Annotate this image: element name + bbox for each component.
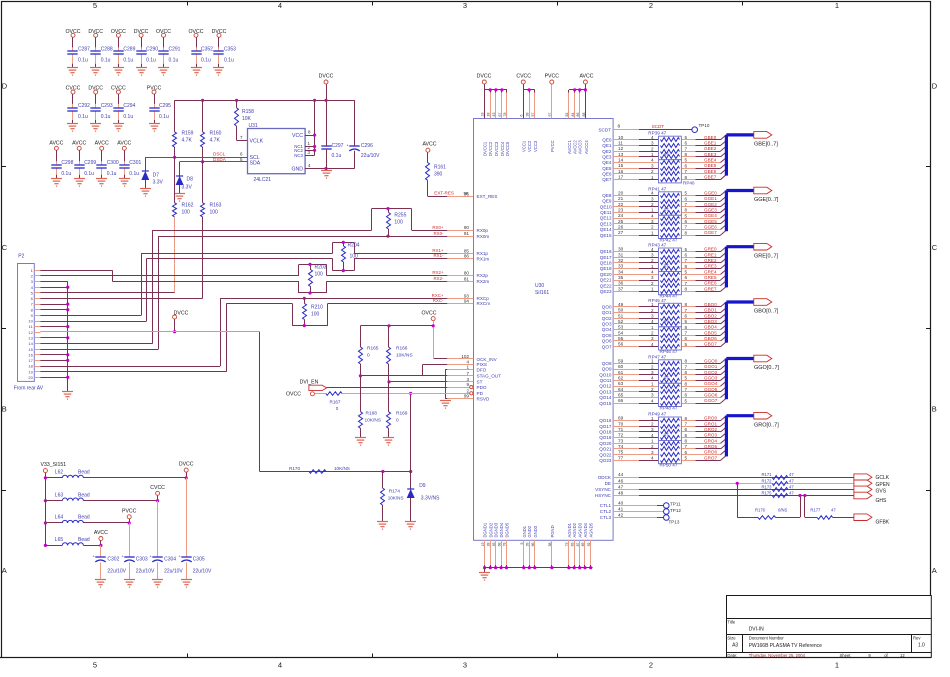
svg-text:8: 8 [685, 439, 688, 444]
svg-text:8: 8 [685, 230, 688, 235]
svg-text:OVCC: OVCC [156, 29, 171, 35]
svg-text:QE4: QE4 [602, 160, 612, 165]
svg-text:L62: L62 [55, 470, 64, 476]
svg-text:ODCK: ODCK [598, 475, 612, 480]
svg-text:GBO4: GBO4 [704, 325, 717, 330]
svg-text:RP50 47: RP50 47 [660, 463, 678, 468]
svg-text:6: 6 [685, 275, 688, 280]
svg-text:C287: C287 [78, 46, 90, 52]
svg-text:2: 2 [651, 444, 654, 449]
svg-text:RX2p: RX2p [477, 273, 489, 278]
svg-text:57: 57 [531, 113, 535, 117]
svg-text:22: 22 [618, 202, 624, 207]
svg-text:GFBK: GFBK [876, 519, 890, 525]
svg-text:4: 4 [651, 319, 654, 324]
svg-text:QE6: QE6 [602, 172, 612, 177]
svg-text:7: 7 [685, 202, 688, 207]
svg-text:0.1u: 0.1u [159, 114, 169, 120]
svg-text:R173: R173 [761, 484, 772, 489]
svg-text:54: 54 [618, 330, 624, 335]
svg-text:2: 2 [651, 364, 654, 369]
svg-text:NC3: NC3 [294, 153, 303, 158]
svg-text:R169: R169 [396, 411, 408, 417]
svg-text:22u/10V: 22u/10V [193, 569, 212, 575]
svg-text:6: 6 [685, 141, 688, 146]
svg-text:C352: C352 [201, 46, 213, 52]
svg-text:GND2: GND2 [527, 525, 532, 537]
svg-text:45: 45 [492, 542, 496, 546]
svg-text:10K/NS: 10K/NS [388, 496, 404, 501]
svg-text:QO15: QO15 [599, 401, 612, 406]
svg-text:AGND1: AGND1 [567, 522, 572, 537]
svg-text:Rev: Rev [913, 636, 921, 641]
svg-text:GGE3: GGE3 [704, 207, 717, 212]
svg-text:From rear AV: From rear AV [14, 386, 44, 392]
svg-text:DVCC5: DVCC5 [505, 141, 510, 156]
svg-text:QO2: QO2 [602, 316, 612, 321]
svg-text:2: 2 [651, 387, 654, 392]
svg-text:1: 1 [651, 359, 654, 364]
svg-text:4: 4 [651, 135, 654, 140]
svg-text:RX0-: RX0- [433, 231, 444, 236]
svg-text:L64: L64 [55, 515, 64, 521]
svg-text:GGO4: GGO4 [704, 381, 718, 386]
svg-text:A: A [932, 566, 937, 575]
svg-text:26: 26 [618, 225, 624, 230]
svg-text:5: 5 [93, 1, 97, 10]
svg-text:R170: R170 [289, 466, 300, 471]
svg-text:10K/NS: 10K/NS [396, 353, 413, 359]
svg-text:27: 27 [618, 230, 624, 235]
svg-text:15: 15 [28, 347, 33, 352]
svg-text:GBE1: GBE1 [704, 141, 717, 146]
svg-text:D: D [932, 82, 938, 91]
svg-text:3: 3 [651, 393, 654, 398]
svg-text:RX2+: RX2+ [432, 270, 444, 275]
svg-text:GRO6: GRO6 [704, 450, 717, 455]
svg-text:VCLK: VCLK [250, 139, 264, 145]
svg-text:RP41 47: RP41 47 [648, 186, 666, 191]
svg-text:RP46 47: RP46 47 [660, 349, 678, 354]
svg-text:7: 7 [685, 387, 688, 392]
svg-text:5: 5 [685, 191, 688, 196]
svg-text:GGE1: GGE1 [704, 196, 717, 201]
svg-text:DSCL: DSCL [213, 152, 226, 157]
svg-text:DVI-IN: DVI-IN [749, 627, 764, 633]
svg-text:47: 47 [663, 263, 669, 268]
svg-text:QE12: QE12 [600, 216, 612, 221]
svg-text:8: 8 [685, 287, 688, 292]
svg-text:14: 14 [28, 341, 33, 346]
svg-text:AVCC: AVCC [49, 141, 63, 147]
svg-text:62: 62 [618, 375, 624, 380]
svg-text:3: 3 [651, 141, 654, 146]
svg-text:78: 78 [503, 542, 507, 546]
svg-text:6: 6 [685, 163, 688, 168]
svg-text:C305: C305 [193, 557, 205, 563]
svg-text:64: 64 [618, 387, 624, 392]
svg-text:DVCC: DVCC [179, 462, 194, 468]
svg-text:42: 42 [618, 513, 624, 518]
svg-text:0.1u: 0.1u [101, 57, 111, 63]
svg-text:23: 23 [618, 207, 624, 212]
svg-text:73: 73 [618, 438, 624, 443]
svg-text:CVCC: CVCC [150, 485, 165, 491]
svg-text:3: 3 [651, 219, 654, 224]
svg-text:C294: C294 [123, 103, 135, 109]
svg-text:7: 7 [685, 146, 688, 151]
svg-text:83: 83 [570, 542, 574, 546]
svg-text:1: 1 [651, 264, 654, 269]
svg-text:70: 70 [618, 421, 624, 426]
svg-text:Date:: Date: [727, 653, 737, 658]
svg-text:14: 14 [618, 158, 624, 163]
svg-text:1: 1 [651, 287, 654, 292]
svg-text:GRE1: GRE1 [704, 252, 717, 257]
svg-text:Sheet: Sheet [840, 653, 852, 658]
svg-text:0.1u: 0.1u [61, 171, 71, 177]
svg-text:C297: C297 [332, 143, 344, 149]
svg-text:QO10: QO10 [599, 372, 612, 377]
svg-text:EXT_RES: EXT_RES [477, 194, 498, 199]
svg-text:8: 8 [685, 302, 688, 307]
svg-text:52: 52 [618, 319, 624, 324]
svg-text:5: 5 [685, 398, 688, 403]
svg-text:2: 2 [651, 225, 654, 230]
svg-text:PDO: PDO [477, 385, 487, 390]
svg-text:56: 56 [618, 342, 624, 347]
svg-text:0.1u: 0.1u [129, 171, 139, 177]
svg-text:CTL3: CTL3 [600, 515, 612, 520]
svg-text:DVCC: DVCC [134, 29, 149, 35]
svg-text:6: 6 [685, 196, 688, 201]
svg-text:24: 24 [618, 213, 624, 218]
svg-text:102: 102 [461, 354, 469, 359]
svg-text:GGO1: GGO1 [704, 364, 718, 369]
svg-text:A3: A3 [732, 643, 738, 649]
svg-text:SDA: SDA [250, 161, 261, 167]
svg-text:TP12: TP12 [670, 508, 681, 513]
svg-text:GBO1: GBO1 [704, 308, 717, 313]
svg-text:GBE0: GBE0 [704, 135, 717, 140]
svg-text:38: 38 [525, 113, 529, 117]
svg-text:OVCC: OVCC [66, 29, 81, 35]
svg-text:4: 4 [651, 456, 654, 461]
svg-text:OVCC: OVCC [286, 392, 301, 398]
svg-text:3.3V: 3.3V [182, 185, 193, 191]
svg-text:QE10: QE10 [600, 204, 612, 209]
svg-text:GBO5: GBO5 [704, 330, 717, 335]
svg-text:GRO2: GRO2 [704, 427, 717, 432]
svg-text:47: 47 [663, 207, 669, 212]
svg-text:VCC1: VCC1 [521, 140, 526, 152]
svg-text:66: 66 [618, 398, 624, 403]
svg-text:QE5: QE5 [602, 166, 612, 171]
svg-text:PVCC: PVCC [122, 508, 137, 514]
svg-text:92: 92 [587, 542, 591, 546]
svg-text:VCC: VCC [292, 133, 303, 139]
svg-text:10: 10 [618, 135, 624, 140]
svg-text:GRE0: GRE0 [704, 247, 717, 252]
svg-text:3: 3 [651, 275, 654, 280]
svg-text:84: 84 [571, 113, 575, 117]
svg-text:1: 1 [651, 208, 654, 213]
svg-text:D9: D9 [419, 483, 426, 489]
svg-text:QO5: QO5 [602, 333, 612, 338]
svg-text:DVCC: DVCC [212, 29, 227, 35]
svg-text:P2: P2 [18, 253, 24, 259]
svg-text:AVCC: AVCC [72, 141, 86, 147]
svg-text:1: 1 [835, 661, 839, 670]
svg-text:65: 65 [618, 393, 624, 398]
svg-text:B: B [932, 405, 937, 414]
svg-text:R159: R159 [182, 131, 194, 137]
svg-text:C301: C301 [129, 160, 141, 166]
svg-text:C303: C303 [136, 557, 148, 563]
svg-text:4: 4 [278, 1, 282, 10]
svg-text:13: 13 [28, 336, 33, 341]
svg-text:50: 50 [618, 308, 624, 313]
svg-text:2: 2 [651, 331, 654, 336]
svg-text:1: 1 [651, 416, 654, 421]
svg-text:18: 18 [481, 113, 485, 117]
svg-text:RX2-: RX2- [433, 276, 444, 281]
svg-text:91: 91 [464, 231, 470, 236]
svg-text:12: 12 [900, 653, 905, 658]
svg-text:2: 2 [651, 169, 654, 174]
svg-text:C289: C289 [123, 46, 135, 52]
svg-text:8: 8 [685, 152, 688, 157]
svg-text:TP11: TP11 [670, 502, 681, 507]
svg-text:35: 35 [618, 275, 624, 280]
svg-text:6: 6 [685, 219, 688, 224]
svg-text:5: 5 [685, 342, 688, 347]
svg-text:96: 96 [464, 191, 470, 196]
svg-text:2: 2 [651, 308, 654, 313]
svg-text:20: 20 [618, 190, 624, 195]
svg-text:PD: PD [477, 391, 484, 396]
svg-text:17: 17 [618, 175, 624, 180]
svg-text:QO14: QO14 [599, 395, 612, 400]
svg-text:28: 28 [486, 113, 490, 117]
svg-text:3: 3 [651, 314, 654, 319]
svg-text:QO8: QO8 [602, 361, 612, 366]
svg-text:R171: R171 [761, 472, 772, 477]
svg-text:Bead: Bead [78, 537, 90, 543]
svg-text:DGND2: DGND2 [488, 522, 493, 537]
svg-text:3.3V: 3.3V [153, 180, 164, 186]
svg-text:R210: R210 [311, 305, 323, 311]
svg-text:48: 48 [618, 491, 624, 496]
svg-text:R167: R167 [330, 400, 341, 405]
svg-text:GBO6: GBO6 [704, 336, 717, 341]
svg-text:C: C [2, 243, 8, 252]
svg-text:RP43 47: RP43 47 [648, 243, 666, 248]
svg-text:6: 6 [520, 115, 524, 117]
svg-text:63: 63 [618, 381, 624, 386]
svg-text:QE16: QE16 [600, 249, 612, 254]
svg-text:47: 47 [789, 478, 794, 483]
svg-text:7: 7 [685, 281, 688, 286]
svg-text:GRE5: GRE5 [704, 275, 717, 280]
svg-text:4: 4 [651, 342, 654, 347]
svg-text:GRE3: GRE3 [704, 264, 717, 269]
svg-text:0/NS: 0/NS [778, 508, 788, 513]
svg-text:QO18: QO18 [599, 430, 612, 435]
svg-text:8: 8 [685, 359, 688, 364]
svg-text:87: 87 [576, 542, 580, 546]
svg-text:4: 4 [651, 191, 654, 196]
svg-text:1.0: 1.0 [918, 643, 925, 649]
svg-text:3: 3 [651, 370, 654, 375]
svg-text:6: 6 [685, 253, 688, 258]
svg-text:81: 81 [464, 276, 470, 281]
svg-text:100: 100 [350, 254, 359, 260]
svg-text:U30: U30 [535, 283, 544, 289]
svg-text:AVCC: AVCC [422, 141, 436, 147]
svg-text:QE2: QE2 [602, 149, 612, 154]
svg-text:4.7K: 4.7K [182, 138, 193, 144]
svg-text:QE7: QE7 [602, 177, 612, 182]
svg-text:10K/NS: 10K/NS [365, 418, 382, 424]
svg-text:GRE4: GRE4 [704, 269, 717, 274]
svg-text:Size: Size [727, 636, 736, 641]
svg-text:DVCC: DVCC [88, 29, 103, 35]
svg-text:QO7: QO7 [602, 344, 612, 349]
svg-text:GGE0: GGE0 [704, 190, 717, 195]
svg-text:100: 100 [394, 220, 403, 226]
svg-text:7: 7 [685, 258, 688, 263]
svg-text:GCLK: GCLK [876, 475, 890, 481]
svg-text:RXC-: RXC- [433, 298, 444, 303]
svg-text:GRE6: GRE6 [704, 281, 717, 286]
svg-text:DVCC: DVCC [477, 74, 492, 80]
svg-text:RP47 47: RP47 47 [648, 354, 666, 359]
svg-text:47: 47 [789, 472, 794, 477]
svg-text:5: 5 [685, 433, 688, 438]
svg-text:D: D [2, 82, 8, 91]
svg-text:2: 2 [649, 1, 653, 10]
svg-text:RSVD: RSVD [477, 397, 490, 402]
svg-text:STAG_OUT: STAG_OUT [477, 374, 502, 379]
svg-text:GRO1: GRO1 [704, 421, 717, 426]
svg-text:44: 44 [618, 472, 624, 477]
svg-text:GVS: GVS [876, 489, 887, 495]
svg-text:R166: R166 [396, 346, 408, 352]
svg-text:4: 4 [651, 398, 654, 403]
svg-text:8: 8 [685, 208, 688, 213]
svg-text:AVCC: AVCC [94, 530, 108, 536]
svg-text:GGE2: GGE2 [704, 202, 717, 207]
svg-text:4: 4 [651, 247, 654, 252]
svg-text:GGE[0..7]: GGE[0..7] [754, 197, 779, 203]
svg-text:41: 41 [618, 507, 624, 512]
svg-text:Title: Title [727, 620, 735, 625]
svg-text:L65: L65 [55, 537, 64, 543]
svg-text:RX0+: RX0+ [432, 225, 444, 230]
svg-text:C292: C292 [78, 103, 90, 109]
svg-text:R161: R161 [434, 164, 446, 170]
svg-text:RP49 47: RP49 47 [648, 412, 666, 417]
svg-text:34: 34 [618, 269, 624, 274]
svg-text:C291: C291 [169, 46, 181, 52]
svg-text:CTL2: CTL2 [600, 509, 612, 514]
svg-text:Thursday, November 25, 2004: Thursday, November 25, 2004 [749, 653, 806, 658]
svg-text:0.1u: 0.1u [332, 153, 342, 159]
svg-text:DGND3: DGND3 [494, 522, 499, 537]
svg-text:9: 9 [466, 382, 469, 387]
svg-text:QO0: QO0 [602, 305, 612, 310]
svg-text:2: 2 [649, 661, 653, 670]
svg-text:Bead: Bead [78, 492, 90, 498]
svg-text:7: 7 [685, 225, 688, 230]
svg-text:15: 15 [618, 163, 624, 168]
svg-text:19: 19 [28, 369, 33, 374]
svg-text:D7: D7 [153, 173, 160, 179]
svg-text:99: 99 [464, 394, 470, 399]
svg-text:4.7K: 4.7K [210, 138, 221, 144]
svg-text:R255: R255 [394, 213, 406, 219]
svg-text:2: 2 [651, 258, 654, 263]
svg-text:22u/10V: 22u/10V [361, 153, 380, 159]
svg-text:QE8: QE8 [602, 193, 612, 198]
svg-text:OCK_INV: OCK_INV [477, 357, 498, 362]
svg-text:5: 5 [685, 456, 688, 461]
svg-text:1: 1 [651, 230, 654, 235]
svg-text:V33_SI151: V33_SI151 [41, 462, 67, 468]
svg-text:32: 32 [618, 258, 624, 263]
svg-text:QE21: QE21 [600, 278, 612, 283]
svg-text:GGO5: GGO5 [704, 387, 718, 392]
svg-text:QO20: QO20 [599, 441, 612, 446]
svg-text:10K: 10K [242, 116, 252, 122]
svg-text:R177: R177 [810, 508, 821, 513]
svg-text:R176: R176 [755, 508, 766, 513]
svg-text:C353: C353 [224, 46, 236, 52]
svg-text:4: 4 [651, 376, 654, 381]
svg-text:R163: R163 [210, 203, 222, 209]
svg-text:71: 71 [618, 427, 624, 432]
svg-text:80: 80 [464, 270, 470, 275]
svg-text:0.1u: 0.1u [107, 171, 117, 177]
svg-text:77: 77 [618, 455, 624, 460]
svg-text:QO19: QO19 [599, 435, 612, 440]
svg-text:GRE2: GRE2 [704, 258, 717, 263]
svg-text:5: 5 [685, 158, 688, 163]
svg-text:47: 47 [663, 151, 669, 156]
svg-text:8: 8 [685, 416, 688, 421]
svg-text:R172: R172 [761, 478, 772, 483]
svg-text:20: 20 [28, 375, 33, 380]
svg-text:GBO[0..7]: GBO[0..7] [754, 309, 779, 315]
svg-text:72: 72 [618, 433, 624, 438]
svg-text:0: 0 [336, 406, 339, 411]
svg-text:SCDT: SCDT [652, 124, 665, 129]
svg-text:DGND4: DGND4 [499, 522, 504, 537]
svg-text:12: 12 [28, 330, 33, 335]
svg-text:86: 86 [464, 254, 470, 259]
svg-text:47: 47 [789, 484, 794, 489]
svg-text:0.1u: 0.1u [224, 57, 234, 63]
svg-text:HSYNC: HSYNC [595, 493, 612, 498]
svg-text:RP45 47: RP45 47 [648, 298, 666, 303]
svg-text:7: 7 [685, 308, 688, 313]
svg-text:QE3: QE3 [602, 154, 612, 159]
svg-text:51: 51 [618, 313, 624, 318]
svg-text:QO16: QO16 [599, 418, 612, 423]
svg-text:0.1u: 0.1u [101, 114, 111, 120]
svg-text:Document Number: Document Number [749, 636, 785, 641]
